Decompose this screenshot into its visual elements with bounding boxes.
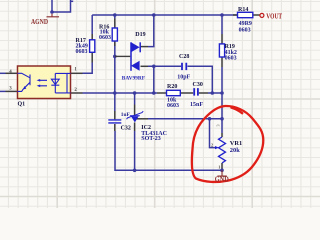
- svg-text:C30: C30: [193, 82, 203, 88]
- svg-text:R14: R14: [238, 7, 248, 13]
- svg-text:SOT-23: SOT-23: [141, 136, 160, 142]
- svg-text:Q1: Q1: [18, 101, 26, 107]
- svg-text:D19: D19: [135, 32, 145, 38]
- svg-text:10pF: 10pF: [177, 75, 190, 81]
- svg-text:R20: R20: [167, 84, 177, 90]
- svg-text:C28: C28: [179, 54, 189, 60]
- svg-text:49R9: 49R9: [239, 21, 252, 27]
- svg-text:0603: 0603: [167, 103, 179, 109]
- svg-text:C32: C32: [121, 126, 131, 132]
- svg-text:GND: GND: [215, 176, 229, 184]
- svg-text:20k: 20k: [230, 147, 240, 154]
- svg-text:VR1: VR1: [230, 140, 242, 147]
- svg-text:0603: 0603: [225, 56, 237, 62]
- svg-text:1: 1: [218, 164, 220, 169]
- svg-text:3: 3: [216, 124, 221, 126]
- svg-text:AGND: AGND: [31, 18, 48, 26]
- svg-text:4: 4: [9, 70, 12, 75]
- svg-text:0603: 0603: [76, 49, 88, 55]
- svg-text:0603: 0603: [239, 27, 251, 33]
- svg-text:BAV99RF: BAV99RF: [122, 75, 146, 81]
- svg-text:VOUT: VOUT: [266, 12, 282, 20]
- svg-text:15nF: 15nF: [190, 102, 203, 108]
- svg-text:1uF: 1uF: [121, 112, 131, 118]
- svg-text:0603: 0603: [99, 35, 111, 41]
- svg-text:2: 2: [211, 143, 213, 148]
